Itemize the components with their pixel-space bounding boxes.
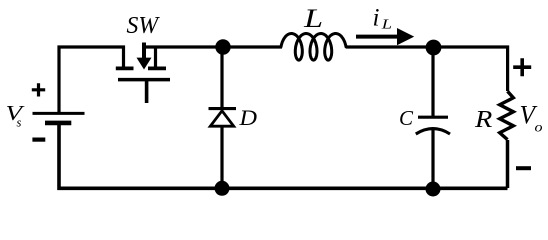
svg-text:D: D bbox=[238, 105, 257, 130]
svg-text:SW: SW bbox=[127, 13, 160, 39]
svg-text:C: C bbox=[399, 106, 414, 130]
svg-text:V: V bbox=[6, 101, 25, 125]
svg-text:i: i bbox=[373, 4, 380, 31]
svg-text:R: R bbox=[474, 106, 492, 133]
svg-text:s: s bbox=[17, 116, 22, 130]
svg-text:L: L bbox=[380, 18, 392, 33]
svg-text:o: o bbox=[535, 121, 543, 136]
svg-text:L: L bbox=[303, 4, 323, 33]
